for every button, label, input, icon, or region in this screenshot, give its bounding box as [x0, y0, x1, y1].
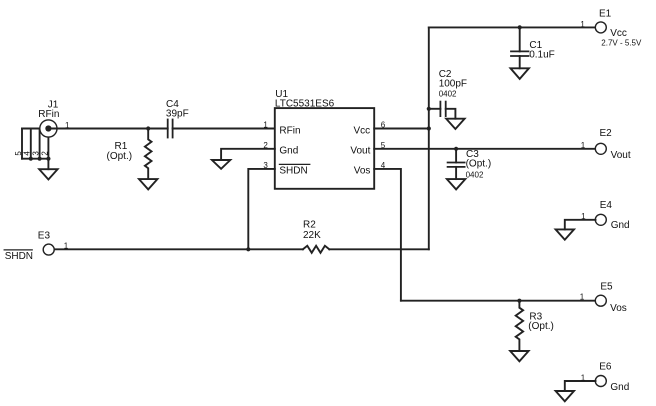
capacitor C1 stem top: [519, 27, 521, 51]
svg-text:1: 1: [580, 293, 585, 302]
svg-text:1: 1: [263, 121, 268, 130]
svg-text:SHDN: SHDN: [5, 251, 33, 262]
svg-text:2.7V - 5.5V: 2.7V - 5.5V: [601, 39, 642, 48]
svg-text:Gnd: Gnd: [610, 382, 629, 393]
svg-text:22K: 22K: [303, 230, 321, 241]
wire U1 pin 5 Vout to E2: [374, 148, 595, 150]
connector J1 ground pin wire 2: [47, 137, 49, 159]
svg-text:(Opt.): (Opt.): [466, 159, 492, 170]
terminal E2 circle: [595, 143, 606, 154]
wire U1 pin 4 stub: [374, 169, 401, 301]
svg-text:3: 3: [263, 161, 268, 170]
svg-text:2: 2: [263, 141, 268, 150]
connector J1 ground stem: [47, 159, 49, 170]
svg-text:5: 5: [381, 141, 386, 150]
svg-text:E1: E1: [599, 9, 612, 20]
svg-text:(Opt.): (Opt.): [107, 151, 133, 162]
ground (U1 pin 2): [212, 160, 230, 169]
svg-text:1: 1: [65, 121, 70, 130]
svg-text:E4: E4: [600, 200, 613, 211]
wire C2 left lead: [429, 108, 441, 110]
svg-text:R2: R2: [303, 219, 316, 230]
svg-text:1: 1: [581, 373, 586, 382]
svg-text:2: 2: [40, 151, 49, 156]
terminal E1 circle: [595, 22, 606, 33]
connector J1 bracket bottom wire: [22, 158, 48, 160]
svg-text:Vout: Vout: [350, 145, 370, 156]
terminal E6 wire: [565, 381, 596, 391]
terminal E4 circle: [595, 214, 606, 225]
svg-text:Vcc: Vcc: [354, 125, 371, 136]
capacitor C1 plate 2: [511, 55, 529, 57]
capacitor C3 stem top: [455, 149, 457, 163]
svg-text:1: 1: [581, 212, 586, 221]
connector J1 center pin: [45, 125, 51, 131]
svg-text:0402: 0402: [466, 170, 484, 179]
terminal E3 wire: [54, 248, 303, 250]
wire RFin net: C4 to U1 pin 1: [173, 128, 275, 130]
svg-text:4: 4: [381, 161, 386, 170]
svg-text:3: 3: [32, 151, 41, 156]
ground (R1): [139, 179, 157, 189]
svg-text:E3: E3: [38, 230, 51, 241]
svg-text:Gnd: Gnd: [279, 145, 298, 156]
svg-text:Vout: Vout: [611, 150, 631, 161]
svg-text:(Opt.): (Opt.): [528, 321, 554, 332]
ground (E6): [556, 391, 574, 401]
connector J1 ground pin wire 3: [39, 129, 41, 159]
ground (C3): [447, 179, 465, 189]
svg-text:Vcc: Vcc: [610, 28, 627, 39]
ground (E4): [556, 229, 574, 239]
svg-text:Vos: Vos: [610, 303, 627, 314]
svg-text:RFin: RFin: [38, 109, 59, 120]
overline SHDN pin label U1: [279, 163, 309, 165]
ground (J1): [39, 169, 57, 179]
svg-text:Gnd: Gnd: [611, 220, 630, 231]
svg-text:0.1uF: 0.1uF: [529, 49, 555, 60]
svg-text:100pF: 100pF: [439, 79, 467, 90]
terminal E3 circle: [43, 244, 54, 255]
svg-text:5: 5: [14, 151, 23, 156]
svg-text:0402: 0402: [439, 89, 457, 98]
connector J1 ground pin wire 5: [21, 129, 23, 159]
junction dot J1 pin 4: [29, 157, 33, 161]
connector J1 bracket top wire: [22, 128, 41, 130]
terminal E6 circle: [595, 376, 606, 387]
junction dot SHDN net: [246, 247, 250, 251]
svg-text:1: 1: [64, 242, 69, 251]
junction dot C3 tap: [454, 147, 458, 151]
junction dot R1 tap: [146, 126, 150, 130]
capacitor C3 plate 1: [448, 162, 465, 164]
resistor R3: [516, 301, 523, 351]
svg-text:1: 1: [580, 20, 585, 29]
junction dot Vcc vertical: [427, 126, 431, 130]
svg-text:E6: E6: [599, 361, 612, 372]
terminal E5 circle: [595, 295, 606, 306]
capacitor C2 plate 1: [439, 102, 441, 117]
wire U1 pin 6 stub: [374, 128, 429, 130]
svg-text:Vos: Vos: [354, 165, 371, 176]
svg-text:6: 6: [381, 121, 386, 130]
capacitor C2 plate 2: [445, 102, 447, 117]
overline SHDN label E3: [4, 249, 32, 251]
op-amp U1 body: [275, 108, 374, 189]
junction dot R3 tap: [517, 299, 521, 303]
connector J1 ground pin wire 4: [30, 129, 32, 159]
svg-text:SHDN: SHDN: [279, 165, 307, 176]
svg-text:39pF: 39pF: [166, 109, 189, 120]
junction dot J1 pin 2: [46, 157, 50, 161]
ground (R3): [510, 351, 528, 361]
capacitor C1 stem bottom: [519, 56, 521, 68]
resistor R1: [145, 129, 152, 180]
junction dot C2 tap: [427, 107, 431, 111]
junction dot J1 pin 3: [38, 157, 42, 161]
svg-text:E2: E2: [600, 128, 613, 139]
wire Vos horizontal to E5: [401, 300, 596, 302]
capacitor C3 plate 2: [448, 166, 465, 168]
svg-text:RFin: RFin: [279, 125, 300, 136]
connector J1 body: [40, 120, 57, 137]
resistor R2: [303, 246, 329, 253]
capacitor C3 stem bottom: [455, 167, 457, 179]
terminal E4 wire: [565, 220, 596, 230]
wire RFin net: J1 to C4: [48, 128, 167, 130]
wire SHDN net right segment: [329, 248, 429, 250]
wire C2 right lead: [446, 109, 456, 119]
svg-text:E5: E5: [600, 282, 613, 293]
wire Vcc top rail: [429, 26, 596, 28]
wire U1 pin 3 stub: [248, 169, 274, 249]
ground (C1): [511, 68, 529, 79]
svg-text:LTC5531ES6: LTC5531ES6: [275, 98, 335, 109]
wire U1 pin 2 stub: [221, 149, 275, 160]
ground (C2): [446, 119, 464, 129]
svg-text:4: 4: [23, 151, 32, 156]
junction dot C1 tap: [518, 25, 522, 29]
capacitor C1 plate 1: [511, 50, 529, 52]
capacitor C4 plate 2: [172, 120, 174, 138]
capacitor C4 plate 1: [167, 120, 169, 138]
svg-text:1: 1: [581, 141, 586, 150]
wire Vcc vertical: [428, 27, 430, 249]
